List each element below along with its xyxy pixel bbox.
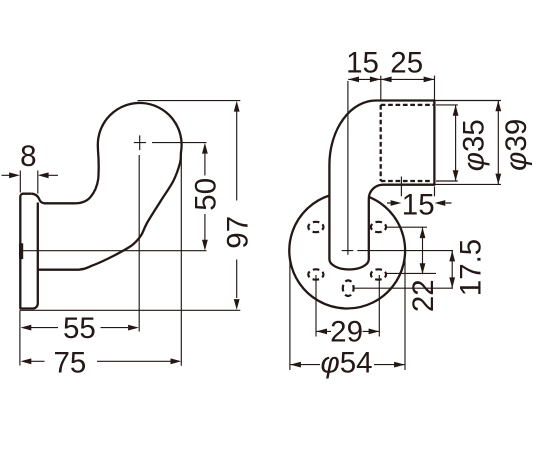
arrowhead dim55 left bbox=[21, 325, 32, 331]
dim 8: extension lines bbox=[20, 171, 38, 194]
arrowhead dim17.5 top bbox=[449, 251, 455, 262]
arrowhead dim25 right bbox=[424, 77, 435, 83]
svg-text:15: 15 bbox=[402, 189, 435, 222]
arrowhead dim17.5 bottom bbox=[449, 277, 455, 288]
arrowhead dim29 left bbox=[316, 329, 327, 335]
screw hole bottom-right (dashed) bbox=[371, 269, 386, 279]
dim 50: extension bbox=[21, 143, 207, 251]
svg-text:15: 15 bbox=[346, 47, 379, 80]
dim 75: line bbox=[30, 360, 171, 362]
arrowhead dim15top left bbox=[348, 77, 359, 83]
dim 25 top: line bbox=[381, 78, 435, 80]
dim 17.5: bottom extension bbox=[354, 287, 453, 289]
arrowhead phi54 right bbox=[394, 362, 405, 368]
svg-text:75: 75 bbox=[53, 346, 86, 379]
screw hole top-left (dashed) bbox=[308, 222, 323, 232]
svg-text:φ39: φ39 bbox=[500, 119, 533, 171]
dim 15 top: line bbox=[348, 78, 380, 80]
arrowhead dim29 right bbox=[369, 329, 380, 335]
dim 15/25: extension lines bbox=[348, 76, 435, 255]
svg-text:55: 55 bbox=[63, 312, 96, 345]
dim 22: line bbox=[422, 227, 424, 274]
svg-text:50: 50 bbox=[189, 178, 222, 211]
screw hole bottom-left (dashed) bbox=[308, 269, 323, 279]
screw hole top-right (dashed) bbox=[371, 222, 386, 232]
arrowhead dim97 bottom (points down) bbox=[234, 299, 240, 310]
dim 29: line bbox=[316, 330, 379, 332]
side view: wall flange plate bbox=[20, 194, 38, 309]
arrowhead dim25 left bbox=[381, 77, 392, 83]
dim 8: leader lines bbox=[2, 174, 59, 176]
dim phi54: line bbox=[290, 364, 405, 366]
dim 17.5: top extension / center line horizontal bbox=[342, 250, 453, 252]
arrowhead dim8 left (points right) bbox=[9, 172, 20, 178]
dim 17.5: line bbox=[451, 251, 453, 289]
side view: bracket arm and rail-socket head outline bbox=[31, 103, 181, 270]
dim 15 lower: extension stubs bbox=[401, 177, 434, 197]
arrowhead dim75 left bbox=[21, 358, 32, 364]
svg-text:17.5: 17.5 bbox=[455, 239, 488, 296]
center cross of rail socket (side view) bbox=[134, 135, 146, 150]
arrowhead dim15top right bbox=[370, 77, 381, 83]
arrowhead phi54 left bbox=[290, 362, 301, 368]
front view: hidden bore line top (dashed) bbox=[381, 104, 434, 106]
svg-text:25: 25 bbox=[390, 47, 423, 80]
dim 15 lower: leaders bbox=[387, 202, 452, 204]
centerline vertical from cross bbox=[138, 155, 140, 332]
dim 97: line bbox=[236, 111, 238, 298]
front view: hidden bore line bottom (dashed) bbox=[381, 180, 431, 182]
arrowhead dim15lower right (points left) bbox=[435, 200, 446, 206]
side view: mounting hole mark on plate back bbox=[19, 243, 23, 259]
dim 22: extensions bbox=[385, 227, 436, 273]
svg-text:φ35: φ35 bbox=[457, 119, 490, 171]
dim phi35: line bbox=[455, 105, 457, 181]
front view: flange circle φ54 bbox=[289, 196, 405, 309]
dim 97: extension bbox=[20, 101, 240, 311]
dim 50: line bbox=[204, 152, 206, 241]
screw hole bottom-center (dashed) bbox=[343, 280, 354, 296]
arrowhead phi35 top bbox=[453, 105, 459, 116]
arrowhead dim50 bottom (points down) bbox=[202, 240, 208, 251]
arrowhead dim15lower left (points right) bbox=[391, 200, 402, 206]
svg-text:97: 97 bbox=[221, 216, 254, 249]
front view: stem, elbow and rail socket outline bbox=[329, 101, 434, 270]
arrowhead phi39 bottom bbox=[495, 174, 501, 185]
arrowhead dim50 top (points up) bbox=[202, 143, 208, 154]
dim phi35: extensions bbox=[436, 105, 458, 181]
arrowhead phi35 bottom bbox=[453, 170, 459, 181]
dim phi54: extensions bbox=[290, 254, 405, 371]
dim phi39: extensions bbox=[435, 101, 502, 185]
dim phi39: line bbox=[497, 101, 499, 185]
arrowhead dim8 right (points left) bbox=[38, 172, 49, 178]
arrowhead dim75 right bbox=[171, 358, 182, 364]
svg-text:22: 22 bbox=[407, 279, 440, 312]
dim 55: line bbox=[30, 327, 128, 329]
dim 55/75: left extension bbox=[19, 310, 21, 365]
svg-text:φ54: φ54 bbox=[320, 346, 372, 379]
svg-text:8: 8 bbox=[20, 140, 36, 173]
arrowhead phi39 top bbox=[495, 101, 501, 112]
front view: hidden bore closed end (dashed) bbox=[380, 105, 382, 181]
dim 29: extensions bbox=[316, 275, 379, 337]
arrowhead dim97 top (points up) bbox=[234, 101, 240, 112]
arrowhead dim55 right bbox=[128, 325, 139, 331]
arrowhead dim22 top bbox=[420, 227, 426, 238]
arrowhead dim22 bottom bbox=[420, 263, 426, 274]
dim 75: right extension bbox=[180, 150, 182, 366]
svg-text:29: 29 bbox=[330, 315, 363, 348]
